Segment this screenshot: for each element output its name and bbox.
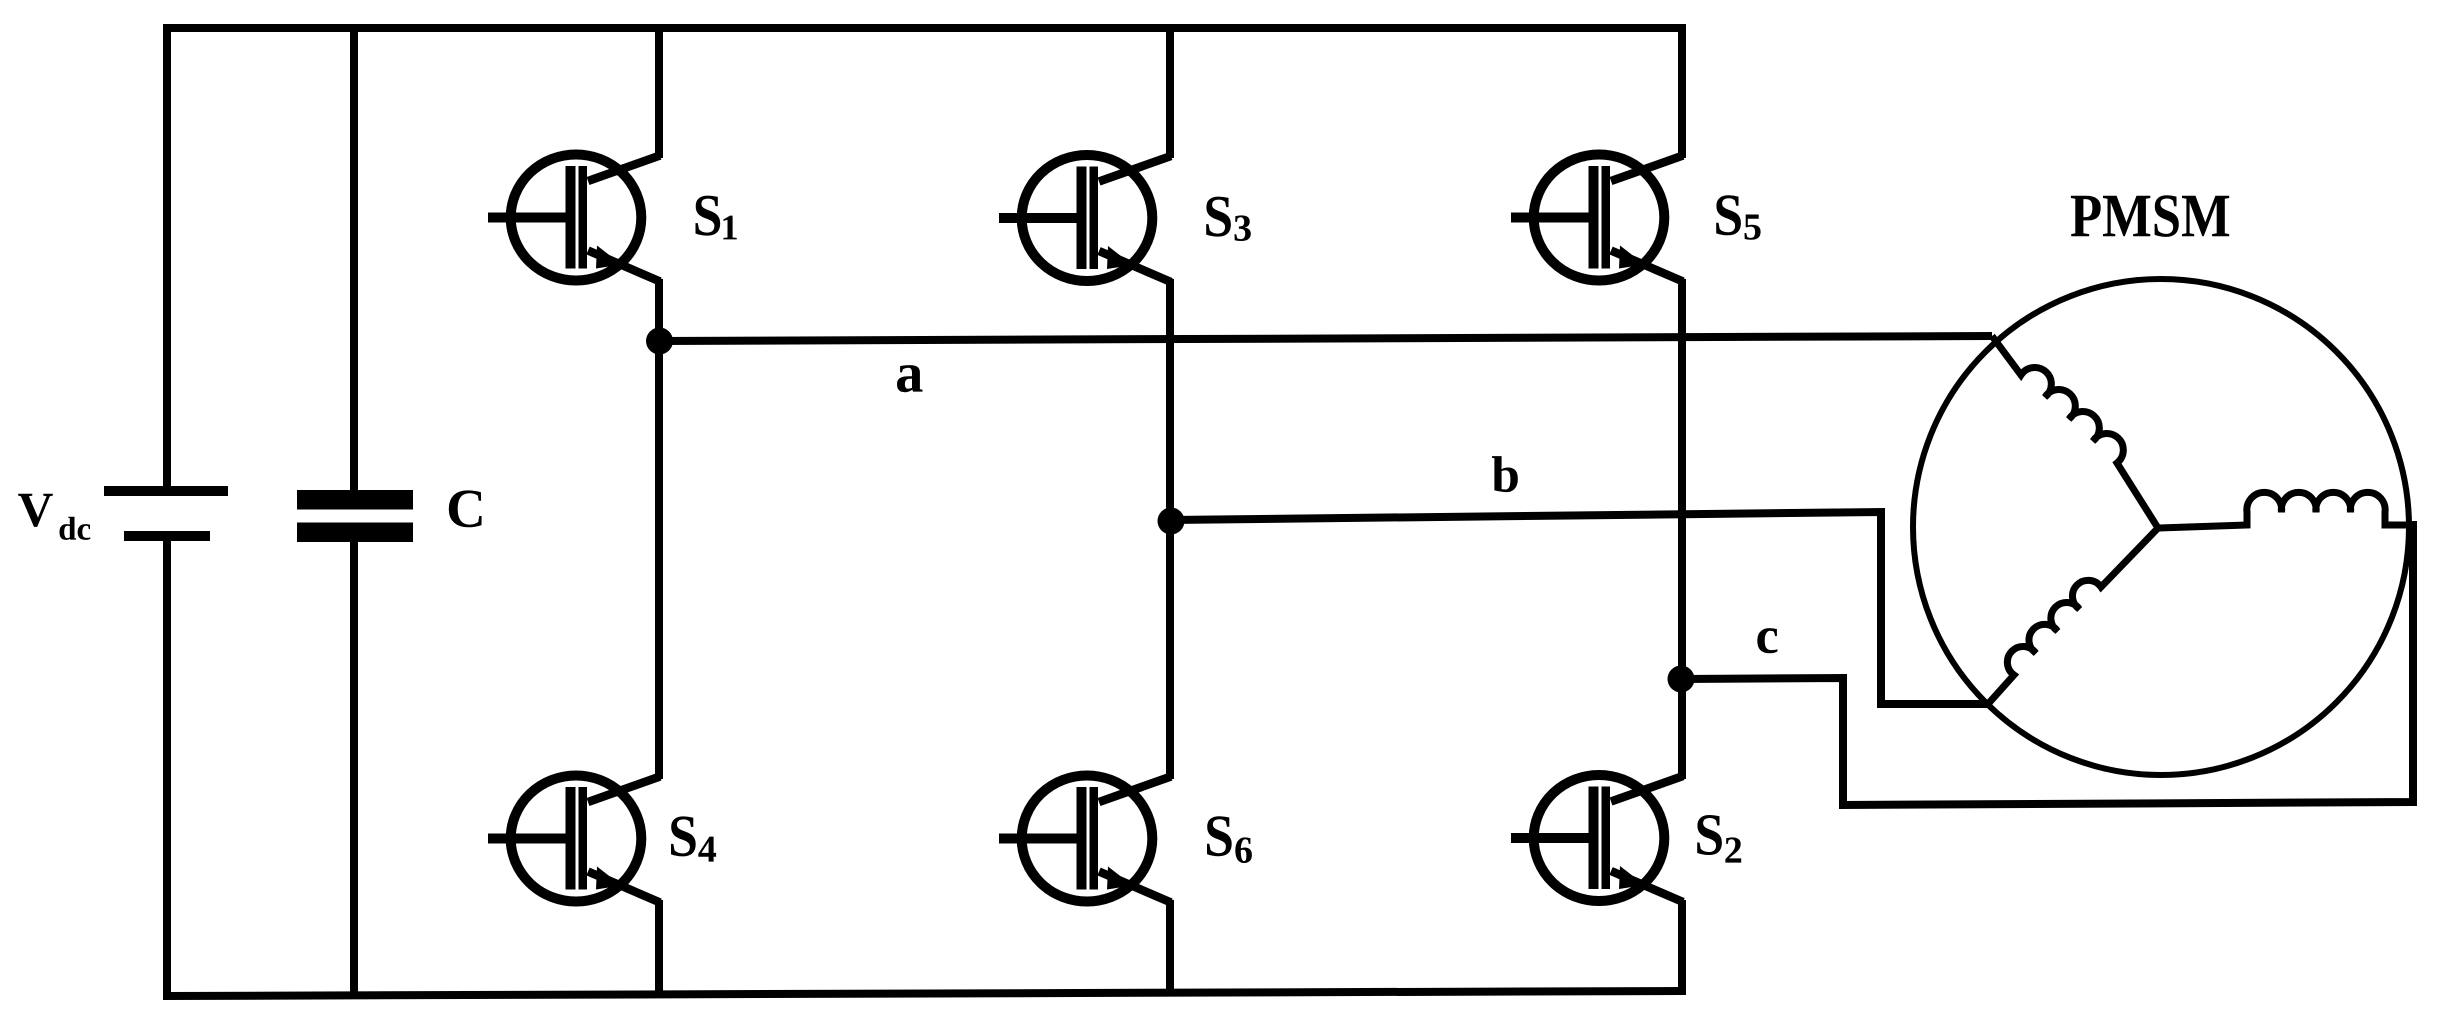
label c [1757,628,1777,653]
wire leg b bottom [1166,900,1174,994]
node b [1158,508,1185,535]
battery Vdc long plate [104,486,228,496]
wire leg a middle [655,279,663,779]
capacitor C top plate [297,490,413,510]
wire leg c bottom [1678,900,1686,995]
label a [897,365,923,392]
wire leg b middle [1166,279,1174,779]
wire capacitor branch upper [350,28,358,490]
winding phase c [2158,492,2414,528]
label Vdc [18,494,90,540]
winding phase a [1992,336,2158,528]
node a [646,328,673,355]
transistor S4 [488,776,660,903]
wire leg a top [655,28,663,158]
transistor S1 [488,155,660,282]
wire phase a line [659,336,1992,341]
wire phase c line [1682,521,2413,805]
PMSM motor body [1913,279,2409,775]
wire bottom rail [167,541,1682,996]
label S1 [696,196,737,240]
node c [1668,666,1695,693]
wire phase b line [1170,512,1988,704]
wire leg b top [1166,28,1174,158]
transistor S5 [1511,155,1683,282]
label S6 [1207,816,1252,863]
label S5 [1716,195,1760,240]
winding phase b [1988,528,2158,704]
label S2 [1697,815,1741,863]
label PMSM [2071,195,2229,237]
label C [449,490,482,527]
capacitor C bottom plate [297,523,413,543]
transistor S6 [999,776,1171,903]
wire leg c middle [1678,279,1686,779]
wire leg a bottom [655,900,663,997]
transistor S3 [999,155,1171,282]
wire capacitor branch lower [350,542,358,995]
label S4 [671,816,716,861]
battery Vdc short plate [124,531,210,541]
wire top rail [163,28,1686,486]
label S3 [1206,197,1251,241]
label b [1492,456,1518,492]
transistor S2 [1511,775,1683,902]
wire leg c top [1678,24,1686,158]
